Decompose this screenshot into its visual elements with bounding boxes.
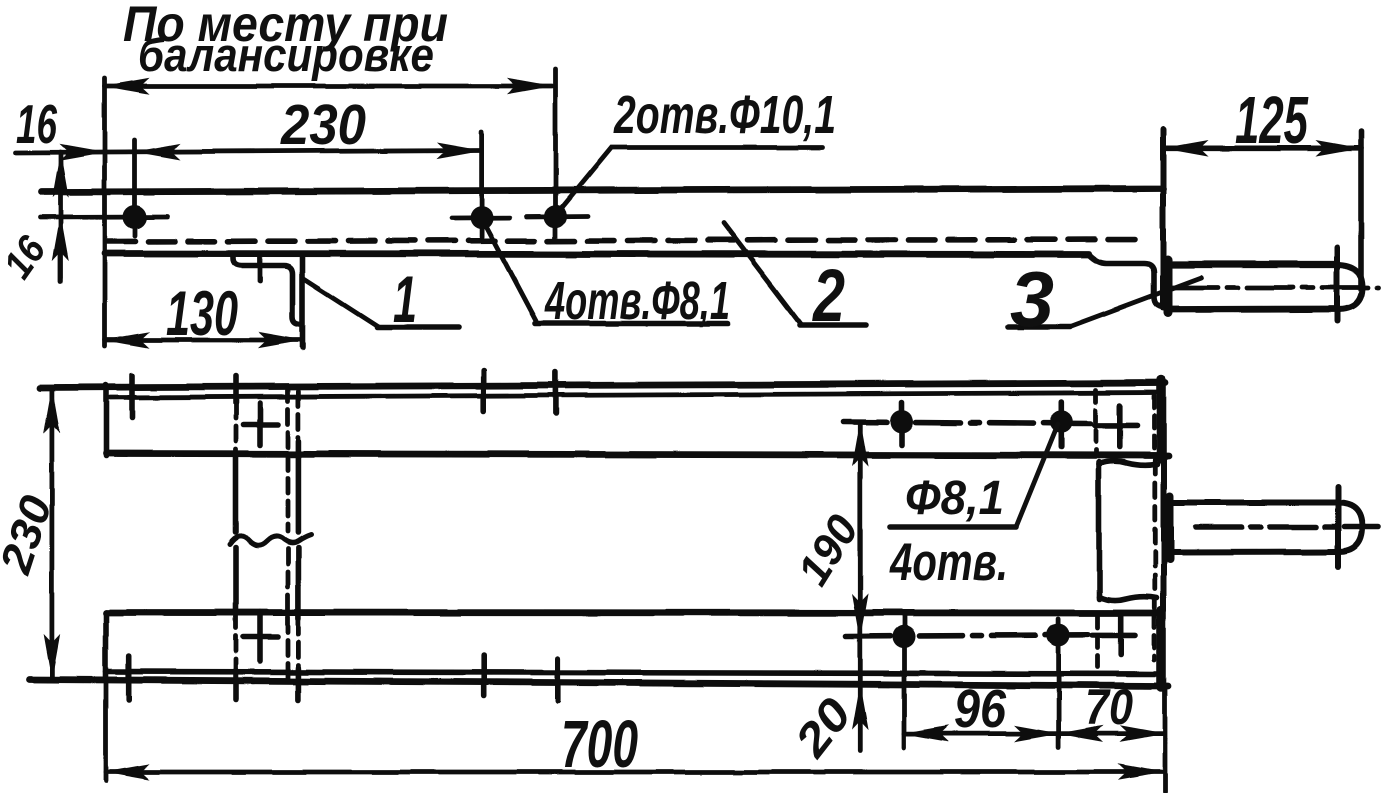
end hole cross rail1 xyxy=(1117,406,1123,447)
end hole cross rail2 xyxy=(1118,616,1124,655)
svg-text:16: 16 xyxy=(16,93,57,155)
svg-text:96: 96 xyxy=(954,679,1007,739)
hole center ticks rail1 xyxy=(899,403,905,446)
rail1 right edge xyxy=(1156,381,1166,459)
end plate hidden lines rail1 xyxy=(1094,390,1099,452)
holes centerline rail1 xyxy=(843,422,1091,424)
holes rail2 (filled) xyxy=(892,625,915,648)
holes rail1 (filled) xyxy=(891,410,914,433)
pin bottom edge xyxy=(1167,306,1337,313)
cross member hidden edge (x=288) xyxy=(286,386,291,531)
extension line left (x=105) xyxy=(103,78,108,346)
label 1 leader xyxy=(303,278,379,327)
dimension 16/230 shared line xyxy=(16,150,482,153)
svg-text:2отв.Ф10,1: 2отв.Ф10,1 xyxy=(613,85,836,145)
leader 4отв.Ф8,1 xyxy=(484,222,537,321)
label 2 leader xyxy=(724,223,801,324)
rail2 inner line xyxy=(106,672,1161,675)
svg-text:4отв.Ф8,1: 4отв.Ф8,1 xyxy=(544,271,730,331)
dimension "По месту при балансировке" line xyxy=(105,84,552,89)
pin cap (plan) xyxy=(1335,487,1341,567)
fraction bar xyxy=(890,524,1016,530)
svg-text:4отв.: 4отв. xyxy=(889,533,1008,592)
svg-text:70: 70 xyxy=(1085,679,1133,735)
rail1 left edge xyxy=(103,385,109,456)
right ext for 125 (x=1361) xyxy=(1358,131,1364,289)
block (part 3) between rails xyxy=(1096,462,1102,599)
cross member hole cross bottom xyxy=(257,612,263,661)
svg-text:балансировке: балансировке xyxy=(138,28,434,81)
dimension 700 line xyxy=(106,770,1163,775)
flange outer edge / ext for 130 xyxy=(300,255,306,348)
rail1 inner line xyxy=(110,393,1157,398)
pin centerline (plan) xyxy=(1196,524,1378,530)
pin centerline xyxy=(1172,285,1378,290)
ticks rail1 top edge xyxy=(129,376,135,419)
ticks rail2 bottom edge xyxy=(126,656,132,700)
block bottom edge / pin top xyxy=(1165,261,1337,268)
label 3 leader xyxy=(1008,324,1070,330)
dimension 130 line xyxy=(105,338,303,343)
flange bracket (part 1) profile xyxy=(233,256,300,325)
pin root flares xyxy=(1166,496,1174,559)
extension line through hole 2 (x=481.6) xyxy=(479,132,484,237)
beam bottom edge xyxy=(105,254,1089,255)
right block left edge / ext (x=1163) xyxy=(1160,129,1166,308)
pin cap arc xyxy=(1337,265,1363,310)
vertical dimension 16 line xyxy=(58,152,63,281)
extension line through hole 1 (x=134.5) xyxy=(132,140,137,236)
dimension 230 line xyxy=(50,388,55,678)
pin (plan view) top/bottom xyxy=(1164,500,1338,506)
break squiggle xyxy=(230,534,311,545)
svg-text:700: 700 xyxy=(561,707,638,782)
beam top edge xyxy=(41,189,1163,193)
hook bracket (part 3) xyxy=(1089,255,1169,308)
rail1 bottom edge xyxy=(106,454,1168,456)
leader to hole xyxy=(1016,424,1058,527)
dimension 125 line / block top edge xyxy=(1163,146,1361,152)
hole 3 (filled) + axis xyxy=(527,214,588,219)
extension line through hole 3 (x=555.5) xyxy=(553,69,558,239)
dimension 96/70 line xyxy=(904,731,1165,736)
pin cap line xyxy=(1334,248,1340,321)
flange hole center tick xyxy=(258,256,263,281)
hole 2 (filled) + axis xyxy=(452,215,510,220)
cross member right edge (x=298.4) xyxy=(296,391,301,441)
beam dashed hidden line xyxy=(108,240,1143,242)
cross member left edge (x=236) xyxy=(233,376,239,403)
svg-text:130: 130 xyxy=(166,279,238,349)
rail2 left edge xyxy=(103,612,109,681)
holes centerline rail2 xyxy=(846,635,1088,637)
ext lines for 96 through rail2 holes xyxy=(902,613,907,749)
leader 2отв.Ф10,1 xyxy=(557,148,822,214)
end plate hidden lines rail2 xyxy=(1095,616,1100,667)
svg-text:Ф8,1: Ф8,1 xyxy=(905,472,1004,525)
rail1 top edge (with 230 ext) xyxy=(40,383,1165,388)
pin root vertical xyxy=(1163,260,1172,313)
ext line left for 700 xyxy=(104,681,109,781)
rail2 right edge xyxy=(1157,611,1167,687)
cross member hole cross top xyxy=(257,403,263,445)
rail2 bottom edge (with 230 ext) xyxy=(29,680,1168,687)
svg-text:1: 1 xyxy=(393,262,417,336)
rail2 top edge xyxy=(106,609,1161,616)
svg-text:125: 125 xyxy=(1235,83,1309,158)
hole 1 (filled) xyxy=(123,205,147,229)
svg-text:2: 2 xyxy=(811,254,845,337)
ext line right for 70/700 xyxy=(1163,688,1168,792)
dimension 190/20 line xyxy=(858,422,863,752)
hole 1 axis line xyxy=(40,215,168,220)
svg-text:3: 3 xyxy=(1010,255,1054,343)
svg-text:230: 230 xyxy=(280,93,366,157)
